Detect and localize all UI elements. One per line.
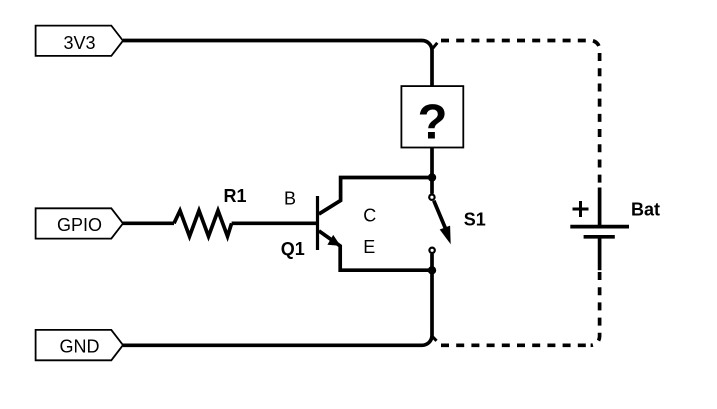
battery positive plate — [570, 225, 629, 229]
svg-text:E: E — [363, 237, 375, 257]
transistor Q1 collector lead — [319, 178, 432, 215]
dashed stub top junction — [432, 43, 437, 49]
svg-text:B: B — [284, 189, 296, 209]
dashed wire top (battery positive) — [441, 41, 600, 184]
wire node to switch top contact — [430, 178, 434, 194]
net flag 3V3 — [36, 26, 123, 56]
resistor R1 — [174, 211, 232, 237]
battery negative plate — [584, 235, 615, 239]
net flag GND — [36, 330, 123, 360]
svg-text:Q1: Q1 — [281, 239, 305, 259]
wire GPIO to resistor — [123, 221, 174, 225]
node junction top — [428, 173, 436, 181]
svg-text:Bat: Bat — [631, 200, 660, 220]
svg-text:?: ? — [418, 96, 448, 150]
wire switch bottom contact to emitter node — [430, 254, 434, 270]
dashed wire right lower (battery negative) — [591, 272, 600, 345]
switch S1 top contact — [429, 195, 434, 200]
switch S1 blade arrow — [440, 226, 451, 245]
node junction bottom — [428, 266, 436, 274]
wire resistor to base — [232, 221, 318, 225]
wire 3V3 net to mystery box — [123, 41, 432, 87]
net flag GPIO — [36, 208, 123, 238]
battery Bat positive stem — [598, 188, 602, 226]
svg-text:R1: R1 — [224, 186, 247, 206]
svg-text:GPIO: GPIO — [57, 215, 102, 235]
svg-text:S1: S1 — [464, 210, 486, 230]
battery negative stem — [598, 239, 602, 271]
transistor Q1 emitter lead — [319, 231, 432, 270]
switch S1 bottom contact — [429, 248, 434, 253]
svg-text:GND: GND — [60, 337, 100, 357]
switch S1 blade — [434, 201, 446, 229]
wire box to collector node — [430, 148, 434, 178]
svg-text:3V3: 3V3 — [63, 33, 95, 53]
transistor Q1 emitter arrow — [327, 235, 340, 246]
dashed stub bottom junction — [433, 337, 437, 341]
mystery component box — [401, 86, 463, 149]
wire emitter node to GND — [123, 270, 432, 345]
battery plus sign — [573, 201, 589, 217]
transistor Q1 base bar — [316, 196, 319, 250]
dashed wire bottom (battery negative) — [441, 343, 588, 347]
svg-text:C: C — [363, 205, 376, 225]
